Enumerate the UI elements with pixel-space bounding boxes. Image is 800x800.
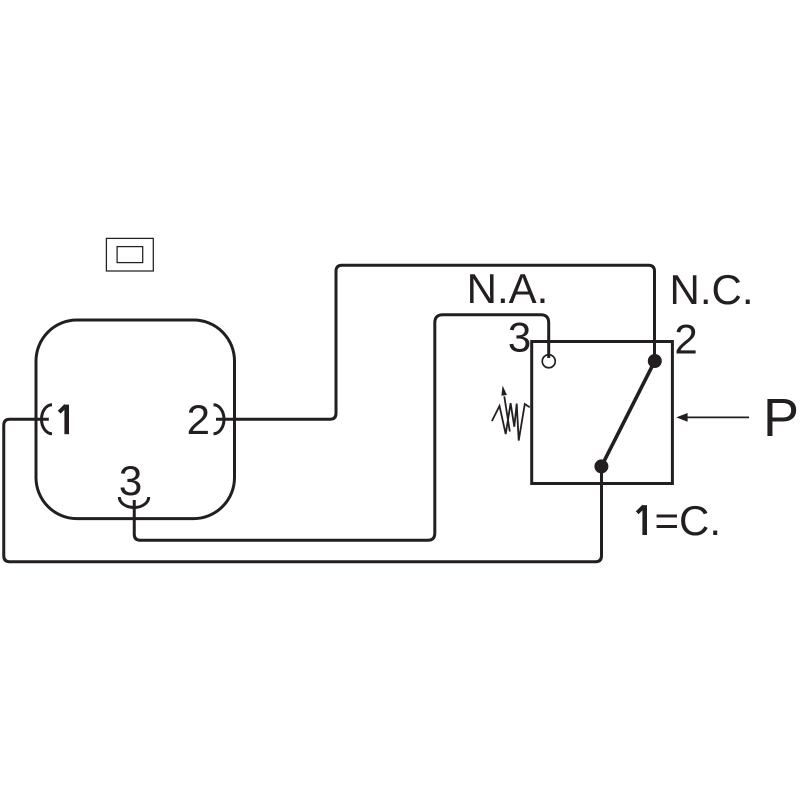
svg-text:2: 2: [187, 396, 210, 443]
svg-text:P: P: [763, 388, 799, 448]
N.A. open contact circle: [542, 355, 555, 368]
valve body (rounded square): [36, 320, 235, 519]
spring arrow head: [501, 386, 507, 396]
svg-text:=C.: =C.: [655, 497, 722, 544]
wire terminal 2 to N.C. contact: [216, 265, 655, 419]
wire terminal 3 to N.A. contact: [134, 315, 548, 540]
socket arc terminal 3: [119, 497, 148, 508]
P arrow head: [676, 413, 687, 422]
socket arc terminal 2: [214, 405, 225, 434]
label 1: [59, 405, 66, 435]
wire terminal 1 to common: [4, 419, 602, 562]
pressure switch box: [532, 342, 673, 484]
P arrow line: [687, 416, 749, 418]
label 1=C.: [637, 505, 645, 535]
socket arc terminal 1: [42, 405, 53, 434]
svg-text:N.A.: N.A.: [467, 265, 549, 312]
coil box icon: [106, 238, 153, 271]
svg-text:N.C.: N.C.: [670, 266, 754, 313]
svg-text:3: 3: [508, 314, 531, 361]
common pivot dot: [594, 459, 608, 473]
svg-text:2: 2: [674, 316, 697, 363]
N.C. contact dot: [648, 354, 662, 368]
spring adjustment arrow shaft: [504, 396, 510, 431]
spring (zigzag): [492, 403, 530, 440]
svg-text:3: 3: [119, 457, 142, 504]
switch lever: [601, 361, 654, 466]
